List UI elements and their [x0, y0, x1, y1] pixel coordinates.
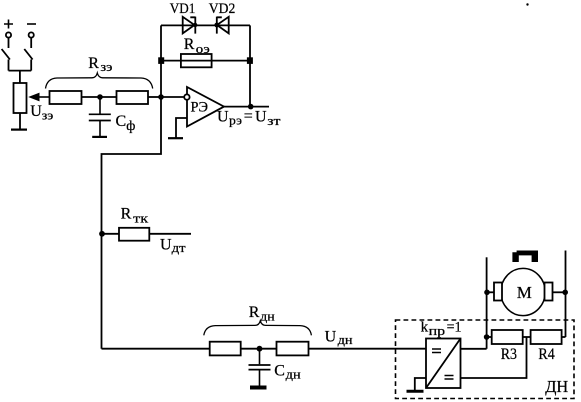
ground (op-amp)	[168, 137, 183, 139]
svg-text:VD2: VD2	[209, 1, 236, 17]
node (C_ф tap)	[97, 94, 103, 100]
svg-text:зэ: зэ	[42, 108, 54, 123]
node (R_тк tap)	[99, 231, 105, 237]
svg-text:=: =	[244, 108, 253, 125]
capacitor C_ф	[89, 97, 111, 136]
label ДН	[545, 377, 568, 396]
label C_ф	[116, 113, 136, 134]
svg-text:зэ: зэ	[100, 59, 112, 74]
converter block k_пр=1	[426, 339, 461, 389]
node (C_дн tap)	[257, 346, 263, 352]
resistor R_тк	[119, 228, 149, 241]
wire	[82, 96, 117, 98]
label R4	[538, 346, 554, 363]
label U_дт	[160, 236, 186, 255]
wire op-amp input	[161, 96, 185, 98]
label R_зэ	[88, 55, 113, 74]
node (diode junction)	[214, 23, 219, 28]
node (left R_оэ)	[158, 57, 164, 64]
label R_оэ	[184, 36, 211, 56]
stray mark	[526, 3, 528, 5]
svg-text:R: R	[88, 55, 99, 72]
minus terminal label	[27, 23, 36, 25]
motor M body	[501, 268, 545, 315]
svg-text:дн: дн	[338, 332, 353, 347]
svg-text:R: R	[249, 304, 260, 321]
brush right	[545, 283, 553, 301]
resistor R_дн-2	[277, 342, 309, 356]
wire	[241, 348, 277, 350]
potentiometer RP body	[14, 83, 27, 113]
svg-text:U: U	[255, 108, 267, 125]
wire R3-R4	[523, 336, 531, 338]
dashed box ДН	[396, 320, 575, 399]
wire op-amp output	[224, 106, 269, 108]
equals sign top	[432, 349, 441, 353]
wire pot to ground	[19, 113, 21, 129]
wire joining switches	[9, 71, 32, 83]
switch blade right	[24, 38, 32, 71]
svg-text:R3: R3	[501, 346, 517, 363]
svg-text:R: R	[184, 36, 195, 53]
terminal circle -	[29, 32, 34, 37]
wire U_дт output	[149, 233, 191, 235]
label U_зэ	[30, 103, 54, 123]
node (motor left / R3)	[484, 334, 490, 340]
svg-text:VD1: VD1	[170, 1, 196, 17]
op-amp U1 РЭ	[184, 87, 224, 127]
wire node down and left	[102, 97, 162, 349]
resistor R3	[492, 330, 523, 344]
svg-text:М: М	[517, 283, 532, 302]
svg-text:пр: пр	[429, 323, 446, 338]
svg-text:РЭ: РЭ	[191, 99, 209, 115]
wire	[148, 96, 161, 98]
wire motor left vertical	[486, 257, 488, 349]
wire right brush	[553, 291, 566, 293]
ground (C_дн)	[250, 386, 267, 390]
node (motor right brush)	[562, 290, 568, 296]
wire R4 to right vertical	[562, 336, 566, 338]
label U_дн	[325, 329, 353, 348]
diode VD2	[217, 17, 229, 34]
node (motor left brush)	[484, 290, 490, 296]
label РЭ	[191, 99, 209, 115]
commutator symbol	[512, 251, 538, 263]
svg-text:тк: тк	[133, 211, 149, 226]
brace R_дн	[204, 321, 312, 336]
wire converter output top	[461, 348, 487, 350]
label VD2	[209, 1, 236, 17]
svg-text:R: R	[121, 206, 132, 223]
wire U_дн to block	[309, 348, 427, 350]
svg-text:дт: дт	[172, 240, 186, 255]
svg-text:U: U	[325, 329, 337, 346]
ground (converter)	[407, 390, 424, 393]
terminal circle +	[6, 32, 11, 37]
resistor R4	[531, 330, 562, 344]
svg-text:C: C	[116, 113, 127, 130]
resistor R_оэ	[181, 54, 212, 67]
svg-text:рэ: рэ	[229, 113, 242, 128]
equals sign bottom	[445, 376, 454, 380]
brush left	[494, 283, 502, 301]
svg-text:U: U	[30, 103, 42, 120]
label M	[517, 283, 532, 302]
resistor R_зэ-2	[117, 91, 149, 104]
label C_дн	[274, 362, 300, 381]
wire to R_тк	[102, 233, 120, 235]
wire op-amp second input to ground	[176, 118, 187, 138]
svg-text:C: C	[274, 362, 285, 379]
wire R_оэ branch	[161, 60, 250, 62]
wire converter output bottom	[461, 337, 527, 378]
svg-text:оэ: оэ	[196, 41, 210, 56]
svg-text:дн: дн	[286, 367, 301, 382]
svg-text:R4: R4	[538, 346, 554, 363]
svg-text:ДН: ДН	[545, 377, 568, 396]
svg-text:k: k	[421, 320, 429, 336]
svg-text:U: U	[217, 108, 229, 125]
wire to R3	[487, 336, 492, 338]
label R3	[501, 346, 517, 363]
switch blade left	[2, 38, 10, 71]
node (right R_оэ)	[247, 57, 253, 64]
wire left vertical up	[160, 25, 162, 97]
wire left brush	[487, 291, 494, 293]
node (output/feedback)	[248, 104, 254, 110]
brace R_зэ	[46, 73, 153, 89]
node (op-amp input net)	[158, 94, 164, 100]
label U_рэ = U_зт	[217, 108, 281, 128]
diode VD1	[183, 17, 198, 34]
wire converter ground	[415, 378, 426, 390]
wire motor right vertical	[565, 251, 567, 338]
svg-text:ф: ф	[126, 119, 135, 134]
ground (potentiometer)	[11, 129, 27, 131]
label к_пр=1	[421, 320, 462, 338]
wire bottom horizontal	[102, 348, 210, 350]
svg-text:дн: дн	[260, 308, 275, 323]
svg-text:зт: зт	[267, 113, 281, 128]
capacitor C_дн	[249, 349, 271, 386]
plus terminal label	[4, 20, 13, 29]
wiper arrow	[28, 93, 49, 102]
wire right vertical (feedback)	[249, 25, 251, 106]
label VD1	[170, 1, 196, 17]
svg-text:U: U	[160, 236, 172, 253]
resistor R_дн-1	[210, 342, 241, 356]
resistor R_зэ-1	[50, 91, 82, 104]
label R_дн	[249, 304, 275, 323]
ground (C_ф)	[92, 136, 107, 138]
wire diode branch	[161, 24, 250, 26]
svg-text:=1: =1	[447, 320, 462, 336]
label R_тк	[121, 206, 149, 226]
